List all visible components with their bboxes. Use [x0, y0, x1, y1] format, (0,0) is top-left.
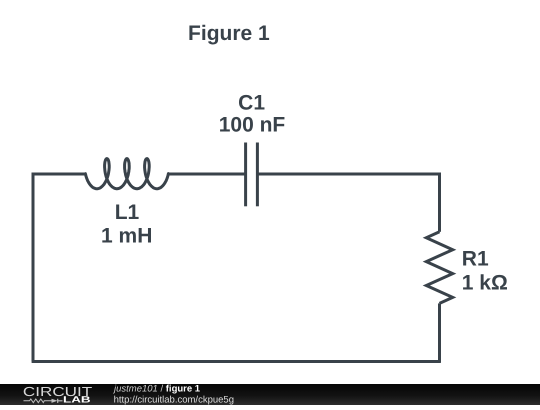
- inductor L1 coil: [85, 159, 168, 189]
- wire right vertical upper (to resistor): [438, 173, 441, 232]
- svg-text:LAB: LAB: [63, 395, 91, 405]
- svg-text:1 mH: 1 mH: [101, 225, 152, 248]
- capacitor C1 left plate: [244, 143, 247, 207]
- wire inductor to capacitor: [168, 173, 246, 176]
- svg-text:C1: C1: [238, 91, 265, 114]
- wire resistor to bottom-right corner: [438, 303, 441, 362]
- svg-text:justme101 / figure 1: justme101 / figure 1: [112, 384, 201, 395]
- svg-text:http://circuitlab.com/ckpue5g: http://circuitlab.com/ckpue5g: [114, 394, 234, 405]
- logo schematic: resistor zigzag: [24, 399, 52, 403]
- wire left vertical (node between L1 and R1 bottom loop): [32, 173, 35, 362]
- svg-text:1 kΩ: 1 kΩ: [462, 272, 508, 295]
- logo schematic: diode: [52, 399, 58, 403]
- wire top-left to inductor: [32, 173, 86, 176]
- svg-text:Figure 1: Figure 1: [188, 22, 270, 45]
- resistor R1 zigzag: [426, 232, 452, 304]
- svg-text:100 nF: 100 nF: [219, 114, 286, 137]
- svg-text:R1: R1: [462, 248, 489, 271]
- capacitor C1 right plate: [256, 143, 259, 207]
- wire capacitor to top-right corner: [257, 173, 439, 176]
- svg-text:L1: L1: [115, 201, 140, 224]
- wire bottom: [32, 360, 441, 363]
